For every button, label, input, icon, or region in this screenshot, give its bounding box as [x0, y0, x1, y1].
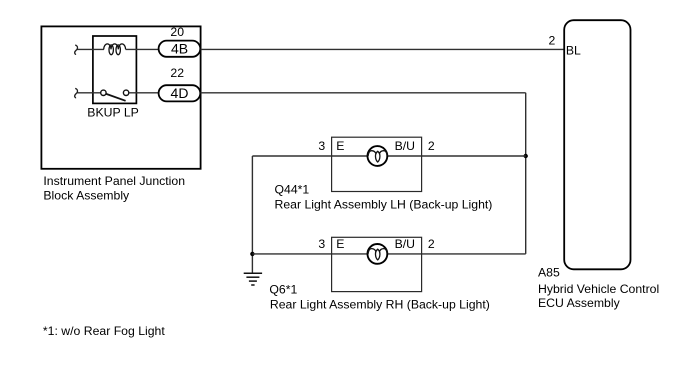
connector oval 4B — [159, 41, 201, 57]
svg-text:4B: 4B — [171, 41, 188, 57]
svg-text:BKUP LP: BKUP LP — [87, 105, 139, 119]
svg-text:3: 3 — [318, 237, 325, 251]
svg-text:*1: w/o Rear Fog Light: *1: w/o Rear Fog Light — [43, 324, 165, 338]
svg-text:2: 2 — [428, 237, 435, 251]
svg-text:2: 2 — [428, 139, 435, 153]
svg-text:2: 2 — [548, 34, 555, 48]
svg-text:Q44*1: Q44*1 — [275, 183, 310, 197]
svg-text:BL: BL — [566, 44, 581, 58]
relay coil loop 1 — [109, 45, 113, 55]
svg-text:Rear Light Assembly RH (Back-u: Rear Light Assembly RH (Back-up Light) — [270, 298, 490, 312]
wire squiggle (coil row continuation mark) — [75, 45, 78, 54]
svg-text:Instrument Panel Junction: Instrument Panel Junction — [43, 174, 185, 188]
relay switch contact circle left — [101, 90, 106, 95]
relay coil loop 2 — [116, 45, 120, 55]
svg-text:ECU Assembly: ECU Assembly — [538, 296, 621, 310]
svg-text:20: 20 — [170, 25, 184, 39]
junction dot at LH wire — [524, 154, 528, 158]
ECU box A85 — [564, 20, 630, 269]
svg-text:B/U: B/U — [395, 237, 415, 251]
junction dot at RH wire — [250, 252, 254, 256]
wire (switch row, left stub) — [77, 92, 101, 94]
svg-text:3: 3 — [318, 139, 325, 153]
LH lamp box — [332, 137, 422, 191]
Instrument Panel Junction Block Assembly box — [41, 26, 200, 168]
svg-text:4D: 4D — [171, 85, 189, 101]
wire (right vertical) — [525, 93, 527, 254]
wire squiggle (switch row continuation mark) — [75, 88, 78, 97]
wire (coil row, left stub) — [77, 48, 104, 50]
svg-text:Block Assembly: Block Assembly — [43, 188, 130, 202]
svg-text:Q6*1: Q6*1 — [269, 283, 297, 297]
svg-text:E: E — [336, 139, 344, 153]
svg-text:E: E — [336, 237, 344, 251]
svg-text:Rear Light Assembly LH (Back-u: Rear Light Assembly LH (Back-up Light) — [275, 198, 493, 212]
svg-text:22: 22 — [170, 66, 184, 80]
relay BKUP LP box — [93, 36, 136, 103]
wire (LH lamp row) — [252, 155, 525, 157]
svg-text:Hybrid Vehicle Control: Hybrid Vehicle Control — [538, 282, 659, 296]
wire (4B to ECU) — [201, 48, 565, 50]
RH lamp box — [332, 237, 422, 291]
wire (switch to connector 4D) — [129, 92, 159, 94]
lamp bulb LH — [368, 146, 388, 166]
relay coil humps — [104, 44, 126, 50]
wire (RH lamp row) — [252, 253, 525, 255]
wire (coil to connector 4B) — [126, 48, 159, 50]
wire (left vertical to ground) — [251, 156, 253, 273]
relay switch contact circle right — [123, 90, 128, 95]
wire (4D to right vertical) — [201, 92, 526, 94]
relay switch blade — [106, 94, 125, 101]
connector oval 4D — [159, 85, 201, 101]
ground symbol — [244, 273, 262, 285]
lamp bulb RH — [368, 244, 388, 264]
svg-text:B/U: B/U — [395, 139, 415, 153]
svg-text:A85: A85 — [538, 266, 560, 280]
